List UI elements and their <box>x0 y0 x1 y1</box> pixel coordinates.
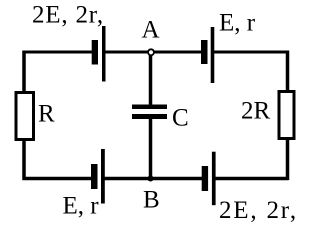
wire middle branch upper <box>149 52 153 105</box>
battery G4 (2E,2r) positive plate <box>212 152 216 206</box>
wire top-right segment <box>213 51 289 54</box>
capacitor C top plate <box>132 105 167 110</box>
wire middle branch lower <box>149 119 153 180</box>
resistor 2R <box>279 92 294 139</box>
svg-text:A: A <box>142 17 160 44</box>
svg-text:C: C <box>172 105 189 132</box>
battery G1 (2E,2r) positive plate <box>102 26 106 82</box>
wire top-left segment <box>23 51 94 54</box>
capacitor C bottom plate <box>132 114 167 119</box>
svg-text:2E, 2r,: 2E, 2r, <box>219 197 298 223</box>
wire bottom-left segment <box>23 177 93 181</box>
wire bottom-right segment <box>214 177 289 181</box>
wire left branch lower <box>22 140 26 181</box>
svg-text:R: R <box>38 101 55 128</box>
wire left branch upper <box>22 51 26 93</box>
battery G3 (E,r) negative plate <box>91 164 98 189</box>
svg-text:B: B <box>143 187 160 214</box>
svg-text:E, r: E, r <box>219 10 256 37</box>
battery G2 (E,r) negative plate <box>201 40 208 64</box>
battery G3 (E,r) positive plate <box>101 149 105 204</box>
node B junction dot <box>148 176 154 182</box>
node A terminal circle <box>148 49 154 55</box>
battery G1 (2E,2r) negative plate <box>92 40 98 65</box>
resistor R <box>16 93 34 140</box>
svg-text:E, r: E, r <box>63 192 100 219</box>
wire top-middle segment <box>103 51 202 54</box>
battery G4 (2E,2r) negative plate <box>202 166 208 191</box>
wire right branch lower <box>286 139 290 181</box>
battery G2 (E,r) positive plate <box>211 27 215 83</box>
svg-text:2E, 2r,: 2E, 2r, <box>32 2 104 29</box>
wire right branch upper <box>286 51 290 92</box>
svg-text:2R: 2R <box>241 97 271 124</box>
wire bottom-middle segment <box>103 177 203 181</box>
